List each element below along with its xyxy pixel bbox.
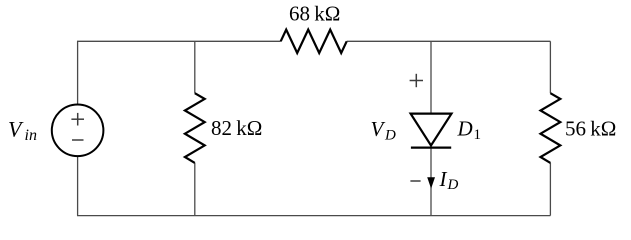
svg-text:68 kΩ: 68 kΩ [289, 1, 340, 25]
svg-text:1: 1 [474, 127, 482, 143]
svg-text:D: D [447, 177, 459, 193]
resistor R1 68k (horizontal zigzag) [281, 30, 347, 53]
value label 68 kOhm [289, 1, 340, 25]
current arrow ID (filled arrowhead on wire) [427, 177, 435, 188]
label ID [439, 167, 459, 193]
label VD [371, 117, 397, 143]
wire 82k branch top [194, 41, 196, 93]
wire right branch bottom [549, 163, 551, 216]
svg-text:D: D [457, 117, 473, 141]
svg-text:V: V [371, 117, 386, 141]
svg-text:82 kΩ: 82 kΩ [211, 116, 262, 140]
wire diode branch top [430, 41, 432, 113]
wire bottom horizontal (ground rail) [77, 215, 550, 217]
voltage source plus sign [71, 113, 84, 126]
diode D1 (triangle + cathode bar) [411, 114, 452, 148]
label Vin [8, 117, 37, 144]
wire left branch bottom (source to bottom rail) [77, 156, 79, 216]
wire left branch top (source to top rail) [77, 41, 79, 104]
label D1 [457, 117, 482, 143]
voltage source minus sign [72, 139, 84, 141]
svg-text:56 kΩ: 56 kΩ [565, 116, 616, 140]
resistor R2 82k (vertical zigzag) [185, 93, 205, 163]
value label 56 kOhm [565, 116, 616, 140]
minus sign below diode [410, 180, 420, 182]
wire 82k branch bottom [194, 163, 196, 216]
value label 82 kOhm [211, 116, 262, 140]
resistor R3 56k (vertical zigzag) [541, 93, 561, 163]
plus sign above diode [410, 74, 423, 87]
voltage source Vin (circle with polarity) [52, 105, 104, 157]
svg-text:in: in [25, 127, 37, 144]
wire top-left horizontal (node A to 68k) [77, 40, 281, 42]
wire right branch top [549, 41, 551, 93]
wire diode branch bottom [430, 148, 432, 216]
svg-text:D: D [384, 127, 396, 143]
wire top-right horizontal (68k to right branch) [347, 40, 551, 42]
svg-text:I: I [439, 167, 448, 191]
